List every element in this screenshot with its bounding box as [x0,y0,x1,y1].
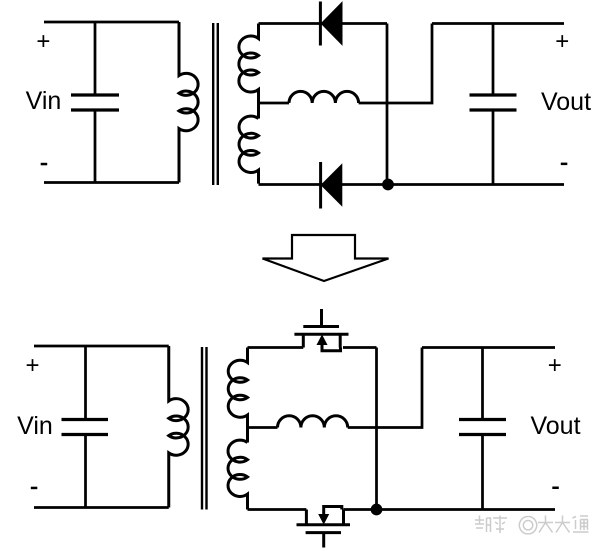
capacitor C1 lead top [94,22,97,95]
capacitor C1 lead bottom [94,110,97,183]
svg-text:Vin: Vin [17,412,53,440]
svg-text:Vout: Vout [530,412,580,440]
wire secondary top rail [259,22,388,25]
label - (top input) [41,163,48,166]
watermark glyph 知 [475,516,491,533]
wire center-tap line [259,102,290,105]
transformer T2 core [202,347,207,510]
label - (top output) [561,163,568,166]
wire bottom rail right [259,183,565,186]
mosfet Q2 source leg [342,510,345,525]
mosfet Q2 gate bar [306,531,341,534]
svg-text:Vout: Vout [541,88,591,116]
wire bottom rail left (input 2) [34,506,169,509]
capacitor C4 lead top [481,348,484,420]
block arrow down [263,235,389,281]
capacitor C4 lead bottom [481,435,484,510]
watermark glyph 大 [538,516,553,533]
diode D2 triangle [322,166,341,205]
capacitor C4 plates [459,420,506,435]
wire top rail left (input) [44,21,179,24]
mosfet Q1 channel bar [294,333,348,336]
capacitor C3 lead bottom [84,435,87,508]
mosfet Q1 source leg [339,334,342,347]
wire center-tap line 2 [248,426,278,429]
mosfet Q2 drain leg [305,510,308,525]
wire bottom rail right right part [344,508,556,511]
svg-text:Vin: Vin [26,87,62,115]
watermark glyph 大 [555,516,570,533]
transformer T1 secondary lower winding [239,116,258,183]
watermark glyph @ [519,517,536,534]
mosfet Q2 body arrowhead [319,515,328,524]
label - (bottom output) [552,487,559,490]
transformer T1 core [213,23,218,185]
inductor L2 [278,416,348,428]
mosfet Q1 drain leg [302,334,305,347]
wire secondary top rail left part [248,346,304,349]
wire bottom rail right left part [248,508,307,511]
inductor L1 [289,91,359,103]
wire inductor to output top rail [359,24,432,104]
svg-text:+: + [25,352,39,379]
capacitor C2 plates [470,95,517,110]
watermark (approximated glyph strokes) [475,516,589,534]
transformer T2 primary winding [169,346,188,508]
transformer T1 secondary upper winding [239,24,259,119]
capacitor C3 plates [62,420,109,435]
mosfet Q2 channel bar [297,523,351,526]
capacitor C2 lead bottom [492,110,495,185]
capacitor C2 lead top [492,24,495,96]
svg-text:+: + [555,28,569,55]
wire output top rail 2 [422,346,555,349]
wire inductor 2 to output top rail [348,348,422,428]
diode D1 cathode bar [319,2,322,46]
svg-text:+: + [36,28,50,55]
watermark glyph 通 [573,516,589,532]
mosfet Q2 body hook [324,507,342,517]
capacitor C1 plates [71,95,119,110]
mosfet Q1 body hook [322,343,341,351]
wire vertical from top rail to bottom junction 2 [375,348,378,510]
label - (bottom input) [31,487,38,490]
transformer T2 secondary lower winding [228,440,247,509]
wire top rail left (input 2) [34,345,169,348]
mosfet Q2 gate lead [322,533,325,548]
junction dot 2 [371,504,383,516]
svg-text:+: + [548,352,562,379]
wire bottom rail left (input) [44,181,179,184]
diode D1 triangle [322,4,342,44]
junction dot [382,179,394,191]
wire secondary top rail right part [343,346,377,349]
transformer T1 primary winding [179,22,198,183]
mosfet Q1 gate lead [320,309,323,325]
capacitor C3 lead top [84,346,87,420]
mosfet Q1 gate bar [303,325,339,328]
mosfet Q1 body arrowhead [317,336,326,345]
watermark glyph 乎 [493,516,507,534]
wire vertical from top rail to bottom junction [386,24,389,185]
wire output top rail [432,22,564,25]
diode D2 cathode bar [319,162,322,209]
transformer T2 secondary upper winding [228,348,247,443]
